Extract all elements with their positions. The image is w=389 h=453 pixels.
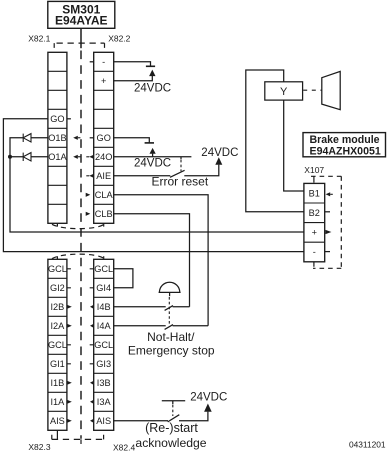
svg-text:AIS: AIS <box>50 416 65 426</box>
wire: X82.1 O1B to diode V1 <box>31 137 48 139</box>
wire: X82.2 "-" to 0V rail bar <box>114 62 151 67</box>
svg-text:Y: Y <box>280 86 288 98</box>
svg-text:24VDC: 24VDC <box>190 392 227 404</box>
svg-text:AIE: AIE <box>96 171 111 181</box>
signal arrows X82.3 right side <box>67 305 72 423</box>
svg-text:acknowledge: acknowledge <box>135 436 206 450</box>
svg-text:I3A: I3A <box>97 397 112 407</box>
svg-text:GCL: GCL <box>48 340 67 350</box>
svg-text:X107: X107 <box>304 165 324 175</box>
svg-text:Error reset: Error reset <box>152 175 209 189</box>
brake horn symbol <box>322 71 340 109</box>
svg-text:Brake module: Brake module <box>310 134 380 146</box>
tick: X82.1 GO right side <box>67 118 71 120</box>
emergency-stop mushroom button <box>159 282 181 324</box>
svg-text:X82.3: X82.3 <box>28 442 50 452</box>
svg-text:I4A: I4A <box>97 321 112 331</box>
wire: diode V2 to node J1, down and across to X107 "+" <box>10 157 304 232</box>
svg-text:X82.2: X82.2 <box>108 34 130 44</box>
signal arrow out of X107 "+" <box>326 230 332 234</box>
svg-text:I2B: I2B <box>51 302 65 312</box>
wire: restart contact to 24VDC arrow <box>179 412 208 421</box>
svg-text:04311201: 04311201 <box>349 440 386 450</box>
wire: X82.4 AIS to restart contact <box>114 420 168 422</box>
junction J1 (diode-OR node) <box>8 155 12 159</box>
svg-text:GI3: GI3 <box>96 359 111 369</box>
svg-text:GI4: GI4 <box>96 283 111 293</box>
wire: X82.1 GO left, down and across to X107 "-" <box>3 119 304 252</box>
e-stop contact 1 blade <box>165 306 173 311</box>
signal arrows into X82.1 (O1B, O1A) <box>73 136 80 159</box>
svg-text:GO: GO <box>50 114 64 124</box>
module boundary: dashed cut above X82.3/X82.4 <box>52 254 105 259</box>
svg-text:24VDC: 24VDC <box>134 82 171 94</box>
signal arrow into X107 B1 <box>326 192 331 196</box>
svg-text:GCL: GCL <box>94 264 113 274</box>
svg-text:CLB: CLB <box>95 209 113 219</box>
wire: CLA right, down to I4A contact <box>114 195 208 326</box>
tick: X107 "-" right side <box>325 251 330 253</box>
wire: X82.2 24O to error-reset button fixed contact <box>114 156 192 158</box>
lead from SM301 box to module boundary <box>80 28 82 48</box>
svg-text:24O: 24O <box>95 152 112 162</box>
svg-text:E94AYAE: E94AYAE <box>55 14 108 28</box>
24VDC source arrow on 24O wire <box>152 154 154 157</box>
coil Y (brake) <box>265 82 303 100</box>
wire: X82.2 GO to 0V rail bar (supply 2) <box>114 138 150 143</box>
svg-text:I2A: I2A <box>51 321 66 331</box>
svg-text:+: + <box>101 76 106 86</box>
svg-text:Not-Halt/: Not-Halt/ <box>147 330 195 344</box>
svg-text:-: - <box>313 247 316 257</box>
pushbutton S1 "Error reset": actuator tick + dashed link + blade <box>170 157 185 178</box>
diode V1 (cathode left) on O1B <box>23 134 31 142</box>
wire: X82.1 O1A to diode V2 <box>31 156 48 158</box>
terminal strip X82.1 <box>48 52 67 223</box>
0V rail bar (supply 2) <box>145 142 154 144</box>
svg-text:CLA: CLA <box>95 190 114 200</box>
module title box SM301 / E94AYAE <box>48 1 115 28</box>
signal arrows out of X82.2 CLA / CLB <box>86 193 91 216</box>
svg-text:B2: B2 <box>309 208 320 218</box>
svg-text:E94AZHX0051: E94AZHX0051 <box>310 145 381 157</box>
diode V2 (cathode left) on O1A <box>23 153 31 161</box>
wire: error-reset contact to 24VDC arrow <box>184 165 219 176</box>
svg-text:AIS: AIS <box>96 416 111 426</box>
svg-text:GI2: GI2 <box>50 283 65 293</box>
svg-text:(Re-)start: (Re-)start <box>145 421 198 435</box>
terminal strip X82.2 <box>94 52 114 223</box>
svg-text:I1A: I1A <box>51 397 66 407</box>
brake module title box E94AZHX0051 <box>303 133 386 158</box>
signal arrow into X82.2 AIE <box>86 175 89 177</box>
svg-text:I3B: I3B <box>97 378 111 388</box>
svg-text:GO: GO <box>97 133 111 143</box>
svg-text:+: + <box>312 228 317 238</box>
brake module dashed outline <box>311 176 341 268</box>
pushbutton S2 "(Re-)start": fixed bar + actuator + blade <box>162 401 185 422</box>
svg-text:I4B: I4B <box>97 302 111 312</box>
wire: X82.4 GCL-GI4 jumper loop <box>114 269 133 288</box>
wire: diode V1 to node J1 <box>10 138 23 157</box>
svg-text:I1B: I1B <box>51 378 65 388</box>
wire: X82.2 AIE to error-reset contact <box>114 175 171 177</box>
svg-text:24VDC: 24VDC <box>201 147 238 159</box>
signal arrow into X82.2 24O <box>86 156 89 158</box>
svg-text:GCL: GCL <box>94 340 113 350</box>
svg-text:-: - <box>102 57 105 67</box>
svg-text:GCL: GCL <box>48 264 67 274</box>
svg-text:X82.1: X82.1 <box>28 34 50 44</box>
svg-text:O1A: O1A <box>48 152 67 162</box>
svg-text:Emergency stop: Emergency stop <box>128 343 215 357</box>
svg-text:GI1: GI1 <box>50 359 65 369</box>
svg-text:B1: B1 <box>309 188 320 198</box>
dashed mechanical link coil Y to brake horn <box>303 89 322 91</box>
X82.4 pin labels <box>94 264 113 426</box>
module boundary: center dashed line <box>80 51 82 439</box>
ticks X82.3 right side <box>67 269 71 364</box>
svg-text:24VDC: 24VDC <box>134 157 171 169</box>
tick: X82.2 GO left side <box>90 137 94 139</box>
terminal strip X107 <box>304 183 325 261</box>
wire: X82.4 I4A to e-stop contact 2 <box>114 325 166 327</box>
X107 pin labels <box>309 188 320 257</box>
module boundary: top dashed rail with end ticks <box>54 43 104 48</box>
wire: coil Y down to X107 B1 <box>284 100 304 191</box>
svg-text:O1B: O1B <box>48 133 66 143</box>
wire: e-stop contact 2 to CLA riser <box>173 325 209 327</box>
module boundary: bottom dashed rail with end ticks <box>52 430 104 444</box>
terminal strip X82.3 <box>48 259 67 430</box>
wire: X82.4 I4B to e-stop contact 1 <box>114 306 166 308</box>
e-stop contact 2 blade <box>165 325 173 330</box>
wire: X82.2 "+" with 24VDC source arrow <box>114 76 153 81</box>
terminal strip X82.4 <box>94 259 114 430</box>
X82.1 pin labels <box>48 114 67 162</box>
X82.3 pin labels <box>48 264 67 426</box>
0V rail bar (supply 1) <box>146 65 155 67</box>
ticks X82.4 left side <box>90 269 94 364</box>
wire: CLB right, down to I4B contact <box>114 214 190 307</box>
svg-text:X82.4: X82.4 <box>113 443 135 453</box>
tick: X107 B2 right side <box>325 211 330 213</box>
module boundary: dashed cut below X82.1/X82.2 <box>52 223 105 228</box>
wire: X107 B2 up and across to coil Y <box>246 70 304 212</box>
signal arrows X82.4 left side <box>90 305 94 423</box>
wire: e-stop contact 1 to CLB riser <box>173 306 190 308</box>
X82.2 pin labels <box>95 57 114 219</box>
tick: X82.2 "-" left side <box>90 61 94 63</box>
